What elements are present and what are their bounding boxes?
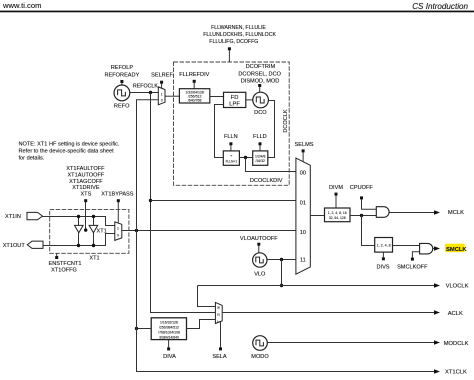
svg-text:DCOCLKDIV: DCOCLKDIV: [250, 178, 283, 184]
node junction XT1CLK tap: [135, 229, 138, 232]
FLL dashed box: [174, 62, 290, 185]
node junction REFOCLK to SELMS: [149, 199, 152, 202]
svg-text:FLLN: FLLN: [224, 134, 238, 140]
svg-text:00: 00: [217, 306, 221, 310]
node junction DCOCLKDIV tap: [244, 156, 247, 159]
svg-text:/16/32: /16/32: [255, 159, 265, 163]
svg-text:FLLWARNEN, FLLULIE: FLLWARNEN, FLLULIE: [211, 25, 266, 31]
svg-text:1, 2, 4, 8: 1, 2, 4, 8: [377, 244, 391, 248]
wire FLLN feedback to FD: [215, 105, 224, 158]
wire DIVM output: [350, 215, 376, 217]
svg-text:DISMOD, MOD: DISMOD, MOD: [241, 79, 280, 85]
svg-text:10: 10: [300, 230, 306, 236]
svg-text:Refer to the device-specific d: Refer to the device-specific data sheet: [19, 149, 115, 155]
node SMCLK label highlighted: [445, 244, 465, 253]
wire XT1BYPASS control: [117, 199, 120, 202]
wire FLLD to FLLN: [239, 157, 252, 159]
wire VLOCLK line: [198, 285, 436, 287]
svg-text:11: 11: [300, 257, 306, 263]
svg-text:XT1DRIVE: XT1DRIVE: [72, 185, 100, 191]
svg-text:0: 0: [117, 234, 119, 238]
gate AND SMCLK: [420, 243, 433, 254]
svg-text:DIVS: DIVS: [376, 265, 389, 271]
wire FLLREFDIV control: [193, 80, 196, 83]
svg-text:32, 64, 128: 32, 64, 128: [329, 216, 346, 220]
XT1 dashed box: [50, 210, 129, 254]
svg-text:SELREF: SELREF: [151, 73, 173, 79]
svg-text:XT1FAULTOFF: XT1FAULTOFF: [66, 166, 105, 172]
svg-text:/256/384/512: /256/384/512: [159, 325, 179, 329]
wire DIVS output: [393, 245, 420, 247]
wire XT1 mux output: [122, 230, 296, 232]
block FD LPF: [224, 92, 246, 107]
svg-text:XT1OUT: XT1OUT: [3, 243, 26, 249]
svg-text:DCOCLK: DCOCLK: [283, 109, 289, 133]
svg-text:XT1AGCOFF: XT1AGCOFF: [69, 179, 103, 185]
svg-text:1/2/4/8: 1/2/4/8: [255, 155, 265, 159]
wire XT1OUT rail: [43, 234, 115, 246]
svg-text:1, 2, 4, 8, 16: 1, 2, 4, 8, 16: [328, 211, 347, 215]
svg-text:FLLREFDIV: FLLREFDIV: [179, 72, 209, 78]
svg-text:DCORSEL, DCO: DCORSEL, DCO: [238, 72, 281, 78]
svg-text:ENSTFCNT1: ENSTFCNT1: [49, 261, 82, 267]
wire XTS control: [84, 199, 87, 202]
oscillator REFO: [114, 85, 130, 101]
svg-text:CS Introduction: CS Introduction: [412, 2, 468, 11]
transistor buffer XT1 amp1: [78, 217, 80, 226]
svg-text:/768/1024/108: /768/1024/108: [158, 330, 180, 334]
node DCOFTRIM labels: [238, 64, 281, 84]
svg-text:FLLULIFG, DCOFFG: FLLULIFG, DCOFFG: [209, 39, 258, 45]
svg-text:ACLK: ACLK: [448, 311, 463, 317]
svg-text:REFOLP: REFOLP: [111, 65, 134, 71]
svg-text:XT1: XT1: [97, 229, 107, 235]
svg-text:VLO: VLO: [254, 272, 266, 278]
svg-text:DCOFTRIM: DCOFTRIM: [246, 64, 276, 70]
svg-text:VLOCLK: VLOCLK: [446, 283, 469, 289]
svg-text:1: 1: [117, 227, 119, 231]
wire VLO to SELMS input 11: [267, 259, 296, 261]
wire MODCLK output: [267, 342, 435, 344]
wire DIVM control: [335, 193, 338, 196]
oscillator DCO: [253, 92, 269, 108]
svg-text:XT1BYPASS: XT1BYPASS: [101, 191, 133, 197]
wire DIVA input: [137, 328, 152, 330]
svg-text:3/384/14/640: 3/384/14/640: [159, 335, 179, 339]
svg-text:REFOCLK: REFOCLK: [133, 83, 158, 89]
svg-text:DIVM: DIVM: [329, 185, 343, 191]
mux SELREF: [158, 87, 165, 105]
svg-text:SELA: SELA: [212, 354, 227, 360]
mux XT1BYPASS: [115, 222, 122, 241]
wire FLLD control: [259, 142, 262, 145]
wire XT1IN rail: [43, 217, 115, 226]
divider DIVA: [151, 318, 186, 340]
mux SELMS: [296, 158, 310, 274]
svg-text:MODO: MODO: [251, 354, 269, 360]
node junction REFOCLK tap: [149, 91, 152, 94]
divider DIVS: [375, 238, 393, 253]
wire VLOCLK to SELA input: [198, 286, 216, 307]
svg-text:XT1: XT1: [89, 256, 99, 262]
svg-text:/640/768: /640/768: [188, 99, 202, 103]
node junction SMCLK branch: [360, 214, 363, 217]
wire ENSTFCNT1 control: [55, 256, 58, 259]
wire SMCLKOFF control: [411, 258, 414, 261]
divider FLLN: [223, 151, 239, 165]
svg-text:www.ti.com: www.ti.com: [2, 1, 41, 10]
svg-text:LPF: LPF: [229, 102, 240, 108]
mux SELA: [215, 302, 222, 323]
wire DCOCLKDIV to SELMS input 00: [246, 158, 296, 172]
svg-text:00: 00: [300, 170, 306, 176]
svg-text:01: 01: [217, 313, 221, 317]
svg-text:DIVA: DIVA: [163, 354, 176, 360]
wire FD to DCO: [246, 99, 253, 101]
wire SMCLK output: [433, 248, 436, 250]
svg-text:DCO: DCO: [254, 110, 267, 116]
svg-text:XT1CLK: XT1CLK: [445, 370, 467, 376]
node junction DIVA tap: [135, 327, 138, 330]
note text: [19, 141, 120, 161]
svg-text:FLLUNLOCKHIS, FLLUNLOCK: FLLUNLOCKHIS, FLLUNLOCK: [203, 32, 276, 38]
node junction VLOCLK: [280, 284, 283, 287]
svg-text:XT1IN: XT1IN: [5, 214, 21, 220]
svg-text:CPUOFF: CPUOFF: [350, 185, 374, 191]
wire SELMS output: [310, 215, 324, 217]
svg-text:MODCLK: MODCLK: [444, 341, 469, 347]
wire REFO output: [130, 92, 159, 94]
node REFOLP labels: [104, 65, 139, 78]
svg-text:FLLD: FLLD: [253, 134, 267, 140]
svg-text:XT1OFFG: XT1OFFG: [51, 268, 77, 274]
divider FLLD: [253, 151, 268, 165]
svg-text:1/16/32/128: 1/16/32/128: [160, 320, 178, 324]
oscillator VLO: [253, 253, 267, 267]
svg-text:REFO: REFO: [114, 104, 130, 110]
node junction VLO tap: [280, 258, 283, 261]
node junction XTS: [84, 228, 87, 231]
svg-text:01: 01: [300, 201, 306, 207]
divider FLLREFDIV: [179, 89, 209, 103]
wire DIVA output to SELA: [187, 320, 216, 329]
svg-text:MCLK: MCLK: [448, 210, 464, 216]
svg-text:XTS: XTS: [80, 191, 91, 197]
transistor buffer XT1 amp2: [93, 217, 95, 226]
oscillator MODO: [253, 336, 268, 351]
wire REFOCLK to SELMS input 01: [151, 200, 296, 202]
svg-text:XT1AUTOOFF: XT1AUTOOFF: [67, 173, 104, 179]
svg-text:REFOREADY: REFOREADY: [104, 72, 139, 78]
wire CPUOFF control: [360, 196, 363, 199]
svg-text:VLOAUTOOFF: VLOAUTOOFF: [240, 236, 278, 242]
wire SELREF output: [165, 95, 179, 97]
svg-text:FLLN+1: FLLN+1: [226, 160, 238, 164]
wire FLL status control: [228, 47, 231, 50]
wire DCO output feedback: [268, 101, 275, 158]
wire FLLREFDIV to FD: [210, 96, 224, 98]
pin XT1OUT: [27, 241, 43, 248]
svg-text:NOTE: XT1 HF setting is device: NOTE: XT1 HF setting is device specific.: [19, 141, 120, 147]
svg-text:0: 0: [161, 99, 163, 103]
node XT1 control labels: [66, 166, 134, 197]
node FLL status labels: [203, 25, 276, 45]
wire SELA output ACLK: [222, 312, 435, 314]
wire SELMS control: [302, 149, 305, 152]
wire XT1CLK bus: [137, 100, 436, 372]
svg-text:SMCLKOFF: SMCLKOFF: [397, 265, 428, 271]
wire FLLN control: [229, 142, 232, 145]
wire VLO down to VLOCLK: [281, 260, 283, 286]
gate AND MCLK: [376, 207, 389, 218]
wire REFOLP control: [120, 80, 123, 83]
svg-text:for details.: for details.: [19, 156, 45, 162]
wire VLOAUTOOFF control: [257, 243, 260, 246]
wire SELA control: [219, 347, 222, 350]
wire branch to DIVS: [362, 216, 375, 246]
divider DIVM: [325, 208, 351, 222]
wire REFOCLK bus vertical: [151, 93, 216, 313]
wire DIVA control: [167, 347, 170, 350]
header rule: [0, 11, 474, 13]
svg-text:SELMS: SELMS: [295, 142, 314, 148]
wire DIVS control: [382, 257, 385, 260]
pin XT1IN: [27, 212, 43, 219]
svg-text:SMCLK: SMCLK: [446, 247, 467, 253]
svg-text:FD: FD: [231, 95, 239, 101]
wire SELREF control: [160, 81, 163, 84]
wire DISMOD control: [258, 84, 261, 87]
wire MCLK output: [389, 212, 435, 214]
svg-text:1: 1: [161, 92, 163, 96]
